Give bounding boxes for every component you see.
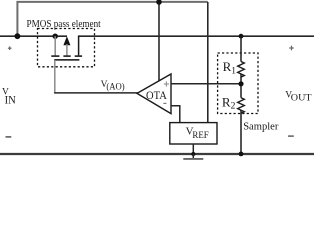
wire: top VIN supply rail: [17, 2, 207, 36]
transistor M1 drain contact bar: [75, 55, 82, 57]
svg-text:Sampler: Sampler: [243, 120, 279, 132]
svg-text:REF: REF: [192, 130, 208, 140]
resistor R1: [238, 62, 245, 78]
label: VOUT + terminal: [289, 46, 294, 51]
transistor M1 gate line: [54, 59, 79, 61]
wire: VIN input rail to PMOS source: [0, 35, 67, 37]
wire: V(AO) net, OTA output to gate: [54, 92, 137, 94]
svg-text:OUT: OUT: [291, 92, 312, 102]
ground symbol: [183, 154, 203, 159]
voltage reference VREF box: [170, 123, 217, 144]
label: VIN - terminal: [6, 136, 12, 138]
wire: sampler top lead: [240, 36, 242, 61]
svg-text:IN: IN: [5, 94, 17, 106]
junction: VIN rail / top rail riser: [15, 33, 21, 39]
wire: OTA supply riser from top rail: [158, 2, 160, 82]
label: VIN: [2, 87, 16, 106]
wire: OTA + input to sampler tap: [171, 83, 241, 85]
wire: R1 to R2 tap: [240, 74, 242, 98]
wire: R2 to ground rail: [240, 110, 242, 154]
label: VIN + terminal: [8, 46, 12, 50]
wire: PMOS drain to VOUT rail: [78, 35, 314, 37]
label: OTA: [146, 88, 167, 102]
junction: top rail / OTA riser: [156, 0, 162, 5]
label: Sampler: [243, 120, 279, 132]
wire: OTA - input to VREF: [171, 106, 180, 123]
transistor M1 source lead: [54, 36, 56, 55]
label: OTA - input pin: [163, 102, 166, 104]
label: PMOS pass element: [27, 18, 101, 30]
transistor M1 drain lead: [79, 36, 80, 55]
junction: VREF lead / ground rail: [191, 152, 195, 156]
junction: R2 lead / ground rail: [239, 152, 244, 157]
svg-text:PMOS pass element: PMOS pass element: [27, 18, 101, 30]
svg-text:(AO): (AO): [106, 81, 124, 91]
label: R2: [222, 94, 236, 111]
label: VOUT - terminal: [288, 135, 294, 137]
label: node V(AO): [101, 80, 125, 92]
label: OTA + input pin: [164, 81, 169, 86]
label: VREF: [186, 126, 209, 140]
wire: bottom ground rail: [0, 153, 314, 155]
junction: VOUT rail / sampler top: [239, 34, 244, 39]
label: VOUT: [285, 91, 312, 103]
junction: VIN rail / PMOS source: [53, 34, 58, 39]
label: R1: [223, 59, 237, 76]
PMOS pass element dashed enclosure: [38, 29, 95, 67]
transistor M1 body contact bar: [63, 55, 70, 57]
svg-text:OTA: OTA: [146, 88, 167, 102]
wire: gate lead down from M1: [54, 60, 56, 93]
wire: VREF supply riser from top rail: [207, 2, 209, 123]
sampler dashed enclosure: [218, 53, 258, 114]
wire: VREF to ground rail: [192, 144, 194, 154]
transistor M1 body arrow (PMOS): [63, 36, 70, 55]
transistor M1 source contact bar: [51, 55, 59, 57]
resistor R2: [238, 98, 245, 114]
junction: feedback tap node: [238, 81, 243, 86]
op-amp U1 OTA triangle: [137, 74, 171, 114]
